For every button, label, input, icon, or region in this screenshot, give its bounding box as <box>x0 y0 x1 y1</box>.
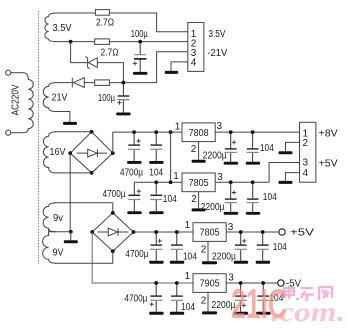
capacitor C14 104 <box>176 234 178 261</box>
svg-text:+5V: +5V <box>319 159 338 170</box>
svg-text:2.7Ω: 2.7Ω <box>96 17 114 28</box>
svg-text:3.5V: 3.5V <box>53 23 72 34</box>
svg-text:104: 104 <box>181 302 195 313</box>
wire J2 pin2 ground <box>286 142 300 151</box>
svg-text:7808: 7808 <box>189 128 209 139</box>
capacitor C5 4700u <box>133 182 135 211</box>
capacitor C13 4700u <box>155 234 157 261</box>
svg-text:16V: 16V <box>50 147 66 158</box>
capacitor C2 100u <box>122 84 124 113</box>
svg-text:21V: 21V <box>52 93 68 104</box>
capacitor C18 104 <box>176 285 178 312</box>
bridge rectifier B1 <box>70 132 113 173</box>
secondary winding 21V <box>43 83 56 112</box>
svg-text:104: 104 <box>149 167 163 178</box>
svg-text:2: 2 <box>191 194 197 205</box>
wire 21V bottom to ground <box>55 112 70 122</box>
transformer core <box>38 11 40 264</box>
U3 pin2 ground <box>207 241 209 261</box>
ground 21V <box>63 122 77 125</box>
svg-text:2: 2 <box>201 295 207 306</box>
center tap wire <box>49 231 71 233</box>
node C12 <box>261 230 265 234</box>
wire J2 pin3 to row2 output <box>269 163 299 183</box>
ground center tap <box>70 232 72 241</box>
wire U3 output to +5V <box>226 231 279 233</box>
regulator U3 7805 <box>193 223 226 242</box>
wire 16V top <box>55 131 92 133</box>
node C13 <box>154 230 158 234</box>
wire U2 output <box>215 181 269 183</box>
wire U1 output to J2 pin1 <box>215 131 299 133</box>
wire 16V bottom <box>55 172 92 174</box>
svg-text:7805: 7805 <box>189 178 209 189</box>
capacitor C17 4700u <box>155 285 157 312</box>
U1 pin2 ground <box>198 142 200 160</box>
node C8 <box>251 130 255 134</box>
diode D2 <box>72 78 84 88</box>
capacitor C3 4700u <box>133 134 135 162</box>
node at 3.5V bottom <box>69 40 73 44</box>
wire R3 to connector pin3 <box>109 52 187 83</box>
wire pin4 to ground <box>171 62 188 71</box>
terminal -5V <box>278 280 284 286</box>
node C10 <box>251 180 255 184</box>
capacitor C12 104 <box>262 234 264 261</box>
node C15 <box>239 281 243 285</box>
svg-text:.com.: .com. <box>271 297 345 327</box>
capacitor C9 2200u <box>230 184 232 212</box>
svg-text:1: 1 <box>185 271 191 282</box>
svg-text:2: 2 <box>191 144 197 155</box>
wire 9V bottom to B2 bottom corner <box>55 251 113 263</box>
node C18 <box>175 281 179 285</box>
resistor R3 <box>95 80 110 86</box>
svg-text:104: 104 <box>273 242 287 253</box>
svg-text:4700µ: 4700µ <box>103 189 126 200</box>
row2 bus <box>134 181 182 183</box>
wire 3.5V bottom row <box>55 41 95 43</box>
svg-text:2200µ: 2200µ <box>212 252 236 263</box>
regulator U2 7805 <box>182 173 215 192</box>
svg-text:3: 3 <box>217 121 223 132</box>
svg-text:9V: 9V <box>53 248 64 259</box>
secondary winding 3.5V <box>45 13 56 42</box>
wire B1 left corner down to center tap <box>69 153 71 232</box>
wire 21V top row <box>55 82 72 84</box>
svg-text:3: 3 <box>217 172 223 183</box>
node C3 <box>132 130 136 134</box>
connector J2 <box>300 122 316 182</box>
svg-text:4: 4 <box>303 168 309 179</box>
svg-text:100µ: 100µ <box>131 29 148 40</box>
capacitor C15 2200u <box>240 285 242 312</box>
node center tap <box>69 230 73 234</box>
svg-text:2: 2 <box>303 138 309 149</box>
wire B2 left corner to 7905 input <box>92 232 193 283</box>
svg-text:3.5V: 3.5V <box>208 29 225 40</box>
svg-text:1: 1 <box>173 171 179 182</box>
svg-text:-21V: -21V <box>207 48 227 59</box>
node V1 row2 <box>169 180 173 184</box>
node C14 <box>175 230 179 234</box>
svg-text:104: 104 <box>260 143 274 154</box>
svg-text:+8V: +8V <box>319 129 338 140</box>
primary terminal bottom <box>6 130 11 135</box>
ground J1 pin4 <box>165 71 179 74</box>
B1 inner diode <box>77 149 108 157</box>
capacitor C8 104 <box>252 134 254 162</box>
capacitor C7 2200u <box>230 134 232 162</box>
wire D2 to R3 <box>84 82 94 84</box>
node vertical V1 <box>169 130 173 134</box>
capacitor C6 104 <box>155 184 157 212</box>
svg-text:1: 1 <box>185 220 191 231</box>
B2 inner diode <box>98 228 129 236</box>
svg-text:3: 3 <box>303 157 309 168</box>
regulator U1 7808 <box>182 123 215 142</box>
svg-text:1: 1 <box>175 122 181 133</box>
node cap C1 <box>138 40 142 44</box>
svg-text:2200µ: 2200µ <box>201 202 225 213</box>
wire <box>11 132 23 134</box>
wire <box>11 72 23 74</box>
svg-text:+5V: +5V <box>290 228 314 239</box>
svg-text:100µ: 100µ <box>98 93 115 104</box>
node cap C2 <box>122 81 126 85</box>
svg-text:104: 104 <box>263 192 277 203</box>
U4 pin2 ground <box>207 292 209 311</box>
capacitor C4 104 <box>155 134 157 162</box>
svg-text:2.7Ω: 2.7Ω <box>101 47 119 58</box>
node C4 <box>154 130 158 134</box>
capacitor C11 2200u <box>240 234 242 261</box>
bridge rectifier B2 <box>92 213 133 251</box>
capacitor C10 104 <box>252 184 254 212</box>
U2 pin2 ground <box>198 192 200 209</box>
capacitor C16 104 <box>262 285 264 312</box>
node C11 <box>239 230 243 234</box>
svg-text:9v: 9v <box>53 213 63 224</box>
regulator U4 7905 <box>193 274 226 293</box>
svg-text:2: 2 <box>201 245 207 256</box>
capacitor C1 100u <box>139 43 141 72</box>
svg-text:AC220V: AC220V <box>11 84 22 115</box>
svg-text:104: 104 <box>183 252 197 263</box>
secondary winding 16V <box>43 132 56 173</box>
node C17 7905 input <box>154 281 158 285</box>
wire J2 pin4 ground <box>286 173 300 181</box>
wire B2 right output <box>134 231 194 233</box>
primary terminal top <box>6 70 11 75</box>
wire zener branch <box>71 42 124 83</box>
svg-text:4700µ: 4700µ <box>120 167 143 178</box>
wire 9v top to bridge B2 <box>55 203 113 213</box>
terminal +5V <box>279 229 285 235</box>
wire 3.5V top to R1 <box>55 12 95 14</box>
svg-text:4: 4 <box>191 58 197 69</box>
resistor R2 2.7ohm <box>95 39 110 45</box>
secondary winding 9V lower <box>43 232 56 263</box>
wire R1 to connector pin1 <box>109 13 187 32</box>
wire R2 to connector pin2 <box>109 41 187 43</box>
svg-text:7905: 7905 <box>200 279 220 290</box>
connector J1 <box>188 23 204 72</box>
node C6 <box>154 180 158 184</box>
secondary winding 9v upper <box>43 203 56 232</box>
svg-text:3: 3 <box>228 222 234 233</box>
wire U4 output to -5V <box>226 282 278 284</box>
svg-text:7805: 7805 <box>200 228 220 239</box>
resistor R1 2.7ohm <box>95 10 109 16</box>
primary winding AC220V <box>23 73 33 133</box>
watermark dianziwang glyphs <box>283 286 332 301</box>
svg-text:4700µ: 4700µ <box>124 294 147 305</box>
B2 corner nodes <box>90 211 135 253</box>
svg-text:2200µ: 2200µ <box>203 151 227 162</box>
svg-text:4700µ: 4700µ <box>125 249 148 260</box>
B1 corner nodes <box>68 130 114 175</box>
wire B1 right corner to bus A <box>113 132 182 153</box>
node C16 <box>261 281 265 285</box>
svg-text:104: 104 <box>163 194 177 205</box>
zener diode D1 <box>85 57 97 69</box>
node C9 <box>229 180 233 184</box>
node C7 <box>229 130 233 134</box>
wire V1 down to row2 bus <box>170 132 172 182</box>
